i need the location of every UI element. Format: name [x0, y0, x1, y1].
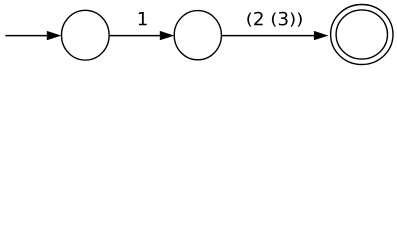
transition label (2 (3)) [247, 12, 302, 27]
accepting state q2 outer circle [331, 5, 393, 65]
wire q0 to q1 [109, 35, 160, 37]
start arrowhead [47, 31, 60, 40]
start arrow wire [5, 35, 47, 37]
arrowhead q0 to q1 [160, 31, 173, 40]
accepting state q2 inner circle [336, 10, 387, 59]
state q0 [62, 10, 110, 60]
wire q1 to q2 [222, 35, 315, 37]
transition label 1 [139, 12, 147, 25]
state q1 [174, 11, 221, 60]
arrowhead q1 to q2 [314, 31, 327, 40]
